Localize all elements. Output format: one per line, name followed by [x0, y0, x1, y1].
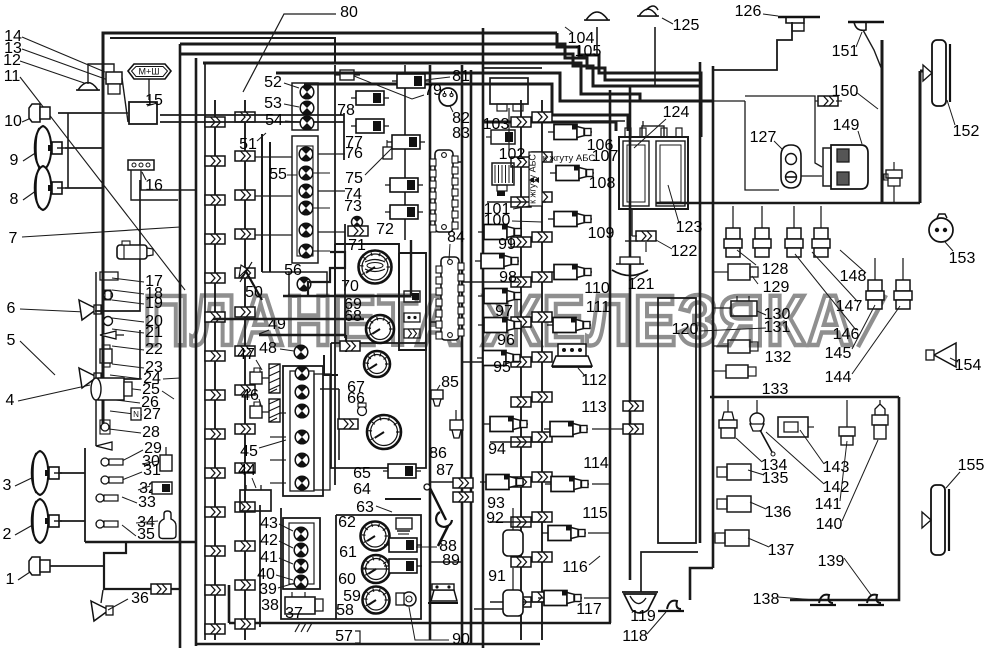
component 76 sensor: [383, 140, 392, 159]
wire 102-103: [508, 108, 510, 152]
svg-text:91: 91: [488, 568, 506, 585]
lamp 45-4: [295, 430, 309, 444]
component 120 panel box: [658, 298, 696, 543]
svg-text:145: 145: [825, 345, 852, 362]
component 93 relay: [480, 475, 524, 490]
svg-text:3: 3: [3, 477, 12, 494]
svg-text:155: 155: [958, 457, 985, 474]
svg-text:99: 99: [498, 236, 516, 253]
svg-text:123: 123: [676, 219, 703, 236]
component 152 mirror: [923, 40, 950, 106]
component 66 sender: [358, 403, 367, 416]
svg-text:83: 83: [452, 125, 470, 142]
label 104 leader: [565, 27, 573, 33]
wire 55 leader: [287, 174, 297, 176]
svg-text:7: 7: [9, 230, 18, 247]
component 133 relay: [726, 365, 756, 378]
component 50 pencil: [239, 262, 262, 300]
svg-text:64: 64: [353, 481, 371, 498]
svg-text:96: 96: [497, 332, 515, 349]
svg-text:52: 52: [264, 74, 282, 91]
component 12 dome lamp: [76, 83, 100, 90]
svg-text:98: 98: [499, 269, 517, 286]
wire 44 leader: [252, 478, 256, 488]
wire top supply bus: [103, 33, 928, 425]
wire 38-43 leaders: [276, 524, 295, 588]
ground hatch bottom: [295, 623, 312, 632]
svg-text:46: 46: [241, 387, 259, 404]
wire 154 leader: [950, 358, 958, 362]
component 138 lamp: [810, 595, 836, 605]
svg-text:143: 143: [823, 459, 850, 476]
lamp 4x-3: [294, 559, 308, 573]
component 21 valve: [100, 331, 124, 339]
component 34 flask: [159, 511, 176, 539]
component 83 connector: [430, 150, 458, 232]
component 128b sensor: [753, 206, 771, 257]
wire 150 leader: [856, 92, 878, 109]
lamp 48: [294, 345, 308, 359]
component 121 dish: [612, 257, 648, 276]
component 130 relay: [731, 296, 757, 316]
panel lamps 45 frame: [283, 366, 330, 496]
component 74 relay: [385, 178, 423, 192]
component 79 fuse: [334, 70, 360, 80]
svg-text:152: 152: [953, 123, 980, 140]
svg-text:33: 33: [138, 494, 156, 511]
component 72 lamp: [352, 216, 363, 227]
component 108 relay: [550, 166, 594, 181]
wire 119 feed: [641, 552, 698, 592]
svg-text:М+Ш: М+Ш: [138, 66, 159, 76]
svg-text:129: 129: [763, 279, 790, 296]
svg-text:149: 149: [833, 117, 860, 134]
component 128 sensor: [724, 206, 742, 257]
component 64 relay: [383, 464, 421, 478]
svg-text:к жгуту АБС: к жгуту АБС: [543, 153, 596, 164]
component 31 screw: [101, 476, 123, 484]
svg-text:35: 35: [137, 526, 155, 543]
gauge 62: [361, 522, 390, 551]
wire center connector bus B: [532, 100, 552, 640]
svg-text:81: 81: [452, 68, 470, 85]
wire v344: [343, 113, 345, 160]
svg-text:41: 41: [260, 549, 278, 566]
svg-text:N: N: [133, 410, 139, 419]
svg-text:22: 22: [145, 341, 163, 358]
box 17-35 lower edges: [85, 448, 196, 542]
lamp 4x-4: [294, 575, 308, 589]
svg-text:6: 6: [7, 300, 16, 317]
svg-text:72: 72: [376, 221, 394, 238]
component 95 relay: [477, 351, 521, 366]
wire top right harness: [597, 22, 882, 203]
component 47 plug: [250, 368, 269, 384]
component 87 lever: [424, 484, 452, 546]
svg-text:133: 133: [762, 381, 789, 398]
component 32 relay: [152, 482, 172, 494]
svg-text:94: 94: [488, 441, 506, 458]
gauge 70 speedometer: [359, 251, 392, 284]
svg-text:92: 92: [486, 510, 504, 527]
component 92 pad: [503, 508, 523, 556]
component 106 relay: [548, 125, 592, 140]
svg-text:109: 109: [588, 225, 615, 242]
wire main harness verticals: [180, 28, 920, 648]
svg-text:151: 151: [832, 43, 859, 60]
wire label leaders 17-35: [108, 278, 158, 536]
component 84 connector: [436, 257, 464, 340]
svg-text:76: 76: [345, 145, 363, 162]
wire 88 leader: [416, 546, 437, 548]
svg-text:1: 1: [6, 571, 15, 588]
component 14 badge М+Ш: [128, 64, 171, 92]
wire 49 harness: [213, 319, 364, 352]
svg-text:142: 142: [823, 479, 850, 496]
wire lamp45 stubs: [270, 413, 286, 483]
gauge 66 big: [367, 415, 401, 449]
lamp 4x-1: [294, 527, 308, 541]
wire 103 box top: [483, 67, 542, 69]
wire 51 leader: [257, 133, 266, 141]
component 110 relay: [548, 265, 592, 280]
component 99 relay: [478, 225, 522, 240]
component 77 relay: [351, 119, 389, 133]
svg-text:68: 68: [344, 308, 362, 325]
svg-text:80: 80: [340, 4, 358, 21]
component 88b relay: [384, 559, 422, 573]
wire 63 box line: [385, 498, 421, 500]
component 75 relay: [387, 135, 425, 149]
conn mid b: [338, 419, 358, 429]
component 132 relay: [728, 340, 758, 353]
svg-text:51: 51: [239, 136, 257, 153]
wire label leaders left: [15, 37, 185, 580]
component 73 relay: [385, 205, 423, 219]
component 155 mirror: [922, 485, 949, 555]
component 94 relay: [484, 417, 528, 432]
component 6 horn: [79, 300, 101, 320]
svg-text:61: 61: [339, 544, 357, 561]
component 114 relay: [545, 477, 589, 492]
component 37 starter relay: [285, 592, 323, 614]
wire relay 113 stub: [584, 401, 643, 598]
lamp 55-5: [299, 223, 313, 237]
lamp 55-2: [299, 166, 313, 180]
component 149 relay: [823, 145, 868, 189]
component 151 switch: [848, 22, 884, 30]
svg-text:38: 38: [261, 597, 279, 614]
wire 124 leader: [634, 119, 666, 148]
wire 122 leader: [656, 240, 672, 249]
wire 126 leader: [763, 14, 778, 16]
component 103 box: [490, 78, 528, 111]
svg-text:8: 8: [10, 191, 19, 208]
svg-text:119: 119: [630, 608, 656, 625]
component 2 brake chamber: [32, 499, 62, 543]
svg-text:108: 108: [589, 175, 616, 192]
svg-text:117: 117: [576, 601, 602, 618]
panel lamps 55 frame: [292, 136, 318, 263]
wire 152 leader: [947, 100, 955, 125]
svg-text:63: 63: [356, 499, 374, 516]
component 19 screw: [104, 290, 113, 300]
watermark text ПЛАНЕТА ЖЕЛЕЗЯКА: [143, 282, 886, 361]
svg-text:126: 126: [735, 3, 762, 20]
svg-text:62: 62: [338, 514, 356, 531]
wire lower right leaders: [736, 430, 878, 600]
wire left connector bus B: [235, 100, 255, 640]
component 91 pad: [503, 568, 523, 616]
svg-text:65: 65: [353, 465, 371, 482]
gauge 68 tachometer: [366, 315, 394, 343]
gauge 58-59: [363, 587, 390, 614]
svg-text:154: 154: [955, 357, 982, 374]
component 90 horn small: [396, 592, 416, 606]
svg-text:113: 113: [581, 399, 607, 416]
wire 153 leader: [945, 242, 953, 251]
wire 15 16 leaders: [142, 103, 157, 180]
svg-text:56: 56: [284, 262, 302, 279]
component 142 sensor dome: [750, 400, 775, 456]
conn mid a: [340, 341, 360, 351]
lamp 45-5: [295, 453, 309, 467]
svg-text:10: 10: [4, 113, 22, 130]
tag к жгуту АБС vertical: [528, 152, 543, 206]
svg-text:82: 82: [452, 110, 470, 127]
wire 112 leader: [578, 368, 585, 376]
svg-text:71: 71: [348, 237, 366, 254]
lamp 45-1: [295, 366, 309, 380]
component 111 relay: [547, 318, 591, 333]
component 141 sensor: [839, 400, 855, 445]
wire 48 leader: [280, 349, 294, 351]
component 10 plug: [29, 104, 50, 122]
svg-text:90: 90: [452, 631, 470, 648]
component 122 conn: [625, 209, 656, 252]
component 140 sensor: [872, 400, 888, 439]
wire 84 harness: [283, 224, 411, 338]
component 89 cup: [428, 584, 458, 603]
component 97 relay: [478, 289, 522, 304]
svg-text:114: 114: [583, 455, 609, 472]
wire center cross stubs: [430, 162, 546, 602]
component 136 relay: [717, 496, 751, 512]
wire 75 leader: [365, 148, 392, 175]
wire lamp55 stubs: [255, 154, 345, 251]
wire 85 leader: [437, 385, 440, 390]
svg-text:141: 141: [815, 496, 842, 513]
wire 82 leader: [450, 106, 453, 112]
svg-text:138: 138: [753, 591, 780, 608]
svg-text:132: 132: [765, 349, 792, 366]
svg-text:39: 39: [259, 581, 277, 598]
gauge 61-60: [362, 555, 390, 583]
component 123 battery box: [619, 126, 688, 209]
svg-text:124: 124: [663, 104, 690, 121]
component 5 horn: [79, 368, 101, 388]
component stack conn1: [404, 313, 420, 322]
svg-text:78: 78: [337, 102, 355, 119]
svg-text:128: 128: [762, 261, 789, 278]
svg-text:153: 153: [949, 250, 976, 267]
wire 116 leader: [589, 556, 600, 565]
component 3 brake chamber: [32, 451, 62, 495]
wire 90 leader: [409, 607, 449, 640]
svg-text:112: 112: [581, 372, 607, 389]
component 28 valve: [96, 442, 112, 450]
lamp 45-3: [295, 404, 309, 418]
svg-text:4: 4: [6, 392, 15, 409]
svg-text:5: 5: [7, 332, 16, 349]
svg-text:102: 102: [499, 146, 526, 163]
svg-text:73: 73: [344, 198, 362, 215]
component 35 screw: [96, 520, 118, 528]
lamp 52: [300, 85, 314, 99]
component 1 plug: [29, 557, 50, 575]
wire 52-54 leaders: [284, 83, 299, 122]
svg-text:70: 70: [341, 278, 359, 295]
lamp 55-4: [299, 201, 313, 215]
svg-text:100: 100: [484, 212, 511, 229]
wire left connector bus A: [205, 100, 225, 640]
wire 46 47 leaders: [256, 360, 262, 408]
component 125 dome: [637, 9, 659, 16]
component 36 horn: [91, 601, 113, 621]
component 118 lamp: [658, 601, 684, 611]
component 29 screw: [101, 458, 123, 466]
svg-text:45: 45: [240, 443, 258, 460]
component 143 device: [778, 417, 814, 437]
svg-text:86: 86: [429, 445, 447, 462]
svg-text:47: 47: [237, 346, 255, 363]
wire 151 leader: [856, 32, 862, 47]
wire mid-left verticals: [110, 38, 335, 640]
component 44 battery box: [240, 485, 271, 511]
component 63 regulator: [396, 518, 412, 534]
wire 121 leader: [632, 274, 640, 280]
wire 149 leader: [858, 131, 862, 144]
svg-text:48: 48: [259, 340, 277, 357]
component 139 lamp: [858, 595, 884, 605]
svg-text:95: 95: [493, 359, 511, 376]
svg-text:150: 150: [832, 83, 859, 100]
component 85 sensor: [431, 390, 443, 406]
component 17 flasher: [117, 241, 153, 259]
svg-text:53: 53: [264, 95, 282, 112]
component 30 sensor: [160, 447, 172, 471]
svg-text:120: 120: [672, 321, 699, 338]
svg-text:31: 31: [143, 462, 161, 479]
component 127 bracket: [781, 145, 801, 188]
svg-text:144: 144: [825, 369, 852, 386]
svg-text:55: 55: [269, 166, 287, 183]
svg-text:125: 125: [673, 17, 700, 34]
component 82 socket: [439, 88, 457, 106]
component 148 sensor: [866, 258, 884, 309]
svg-text:147: 147: [836, 298, 863, 315]
lamp 53: [300, 101, 314, 115]
lamp 45-6: [295, 476, 309, 490]
component 98 relay: [475, 254, 519, 269]
wire center connector bus A: [511, 100, 531, 640]
component 23 headlight switch: [91, 378, 132, 400]
svg-text:28: 28: [142, 424, 160, 441]
svg-text:148: 148: [840, 268, 867, 285]
component 102 relay: [486, 130, 515, 144]
wire battery terminals: [590, 121, 643, 128]
svg-text:131: 131: [764, 319, 791, 336]
svg-text:59: 59: [343, 588, 361, 605]
component 88 relay: [384, 538, 422, 552]
svg-text:107: 107: [592, 148, 619, 165]
wire 130-131 leaders: [700, 311, 766, 331]
component 78 relay: [351, 91, 389, 105]
component 112 motor: [552, 344, 592, 367]
component 27 screw: [100, 420, 110, 434]
svg-text:121: 121: [628, 276, 655, 293]
component 147 sensor: [894, 258, 912, 309]
component 129 sensor: [722, 264, 758, 280]
wire 127 leader: [774, 141, 783, 150]
component 149b small relay: [884, 162, 902, 203]
wire 123 leader: [668, 185, 679, 223]
svg-text:42: 42: [260, 532, 278, 549]
component 128c sensor: [785, 206, 803, 257]
lamp 55-6: [299, 244, 313, 258]
component 115 relay: [542, 526, 586, 541]
svg-text:15: 15: [145, 92, 163, 109]
component 117 relay: [538, 591, 582, 606]
component 104 dome: [584, 12, 610, 20]
component 9 brake chamber: [35, 126, 65, 170]
svg-text:43: 43: [260, 515, 278, 532]
component 46 hatched: [269, 399, 280, 422]
component 96 relay: [478, 318, 522, 333]
component 135 relay: [717, 464, 751, 480]
wire top-left harness: [88, 64, 344, 200]
lamp 4x-2: [294, 543, 308, 557]
component 47 hatched: [269, 364, 280, 393]
component 26 switch N: [131, 408, 141, 420]
lamp 55-1: [299, 147, 313, 161]
component 33 screw: [96, 494, 118, 502]
wire 79 leader: [354, 76, 424, 99]
svg-text:110: 110: [584, 280, 610, 297]
component 109 relay: [548, 212, 592, 227]
panel lamps 39-43 frame: [283, 518, 320, 589]
svg-text:115: 115: [582, 505, 608, 522]
wire 125 leader: [662, 18, 673, 24]
svg-text:36: 36: [131, 590, 149, 607]
wire 128-133 stubs: [713, 250, 758, 371]
component 113 relay: [544, 422, 588, 437]
lamp 54: [300, 116, 314, 130]
lamp 55-3: [299, 184, 313, 198]
wire 155 leader: [946, 472, 960, 488]
svg-text:60: 60: [338, 571, 356, 588]
svg-text:2: 2: [3, 526, 12, 543]
conn 87b: [453, 492, 473, 502]
svg-text:111: 111: [586, 299, 610, 316]
svg-text:27: 27: [143, 406, 161, 423]
wire 84 leader: [449, 244, 450, 260]
wire 45 leader: [259, 440, 286, 448]
svg-text:16: 16: [145, 177, 163, 194]
wire 80 leader: [243, 14, 336, 92]
component 137 relay: [715, 530, 749, 546]
wire 100-101 leaders: [512, 204, 542, 222]
